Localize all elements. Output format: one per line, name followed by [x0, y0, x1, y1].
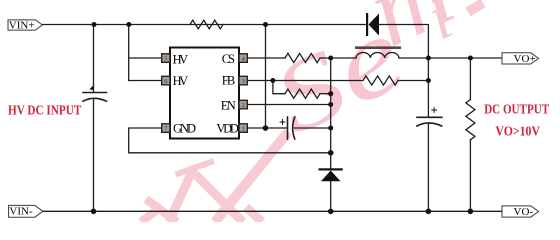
IC U1 body [170, 48, 239, 139]
wire R3 to output column [398, 80, 428, 82]
port flag VIN- [9, 205, 43, 217]
junction top rail at HV feed [126, 22, 131, 27]
wire FB divider drop [273, 81, 285, 94]
junction FB row divider tap [270, 78, 275, 83]
junction bottom rail at load resistor [468, 209, 474, 215]
svg-text:VO-: VO- [514, 206, 534, 218]
wire load resistor column [469, 58, 471, 211]
junction node column at CS row [328, 56, 333, 61]
capacitor C2 plates [287, 117, 289, 139]
svg-text:3: 3 [242, 78, 245, 85]
pin 5 box [162, 54, 170, 63]
junction top rail at VDD feed [263, 22, 268, 27]
junction output row at load resistor [468, 56, 473, 61]
junction node column at EN row [328, 102, 333, 107]
resistor R1 [190, 20, 223, 29]
junction node column at VDD row [328, 126, 333, 131]
junction bottom rail at C1 [91, 209, 97, 215]
pin 1 box [239, 124, 247, 133]
capacitor C3 plus sign [431, 107, 437, 113]
inductor L1 winding [356, 53, 399, 58]
wire R4 to node column [320, 93, 331, 95]
wire L1 output to VO+ [399, 57, 502, 59]
capacitor C1 polarity mark [89, 85, 93, 90]
resistor R3 [363, 76, 398, 85]
port flag VIN+ [8, 19, 42, 31]
wire top rail to VDD row vertical [265, 25, 267, 129]
svg-text:VDD: VDD [216, 122, 239, 136]
wire VDD row segments [248, 127, 331, 129]
wire CS row segments [248, 57, 357, 59]
wire bottom return rail VIN- to VO- [43, 210, 502, 212]
svg-text:HV DC INPUT: HV DC INPUT [8, 104, 82, 119]
diode D2 [319, 168, 343, 181]
junction node column at R4 [328, 91, 333, 96]
port flag VO+ [502, 53, 539, 65]
resistor R5 load [466, 100, 475, 140]
svg-text:VO+: VO+ [514, 53, 536, 65]
wire FB row [248, 80, 364, 82]
wire HV pin6 stub [129, 80, 162, 82]
diode D1 [366, 13, 379, 36]
svg-text:HV: HV [173, 53, 189, 67]
wire EN row [248, 104, 331, 106]
pin 4 box [239, 54, 247, 63]
svg-text:VO>10V: VO>10V [495, 125, 540, 140]
svg-text:VIN-: VIN- [9, 206, 33, 218]
wire output cap column [427, 58, 429, 211]
svg-text:DC OUTPUT: DC OUTPUT [484, 102, 549, 117]
wire HV feed vertical and HV pin5 stub [129, 25, 162, 81]
svg-text:CS: CS [222, 52, 235, 66]
svg-text:2: 2 [242, 102, 245, 109]
svg-text:GND: GND [173, 122, 196, 136]
wire top rail from VIN+ to D1 anode [42, 24, 366, 26]
pin 7 box [162, 124, 170, 133]
port flag VO- [502, 206, 539, 218]
svg-text:5: 5 [164, 55, 167, 62]
wire C1 input cap branch [93, 25, 95, 212]
wire GND return elbow [129, 128, 331, 153]
capacitor C3 plates [417, 116, 442, 118]
resistor R4 [285, 89, 320, 98]
svg-text:HV: HV [173, 74, 189, 88]
watermark [141, 0, 483, 222]
junction output column at R3 [426, 78, 431, 83]
junction output node at CS row [426, 56, 431, 61]
junction node column at GND return [328, 150, 334, 156]
junction VDD row at feed column [263, 125, 269, 131]
junction bottom rail at node column [328, 209, 334, 215]
wire D1 cathode to output node corner [379, 25, 428, 59]
svg-text:EN: EN [221, 99, 236, 113]
pin 6 box [162, 76, 170, 85]
capacitor C2 plus sign [280, 119, 286, 125]
svg-text:VIN+: VIN+ [9, 19, 35, 31]
svg-text:1: 1 [242, 125, 245, 132]
pin 2 box [239, 100, 247, 109]
wire node column with D2 [330, 58, 332, 211]
resistor R2 [285, 53, 320, 62]
junction top rail at C1 [92, 22, 97, 27]
junction bottom rail at output cap [426, 209, 432, 215]
svg-text:FB: FB [222, 74, 235, 88]
inductor L1 core bar [355, 46, 401, 49]
capacitor C1 plates [83, 92, 107, 94]
pin 3 box [239, 76, 247, 85]
